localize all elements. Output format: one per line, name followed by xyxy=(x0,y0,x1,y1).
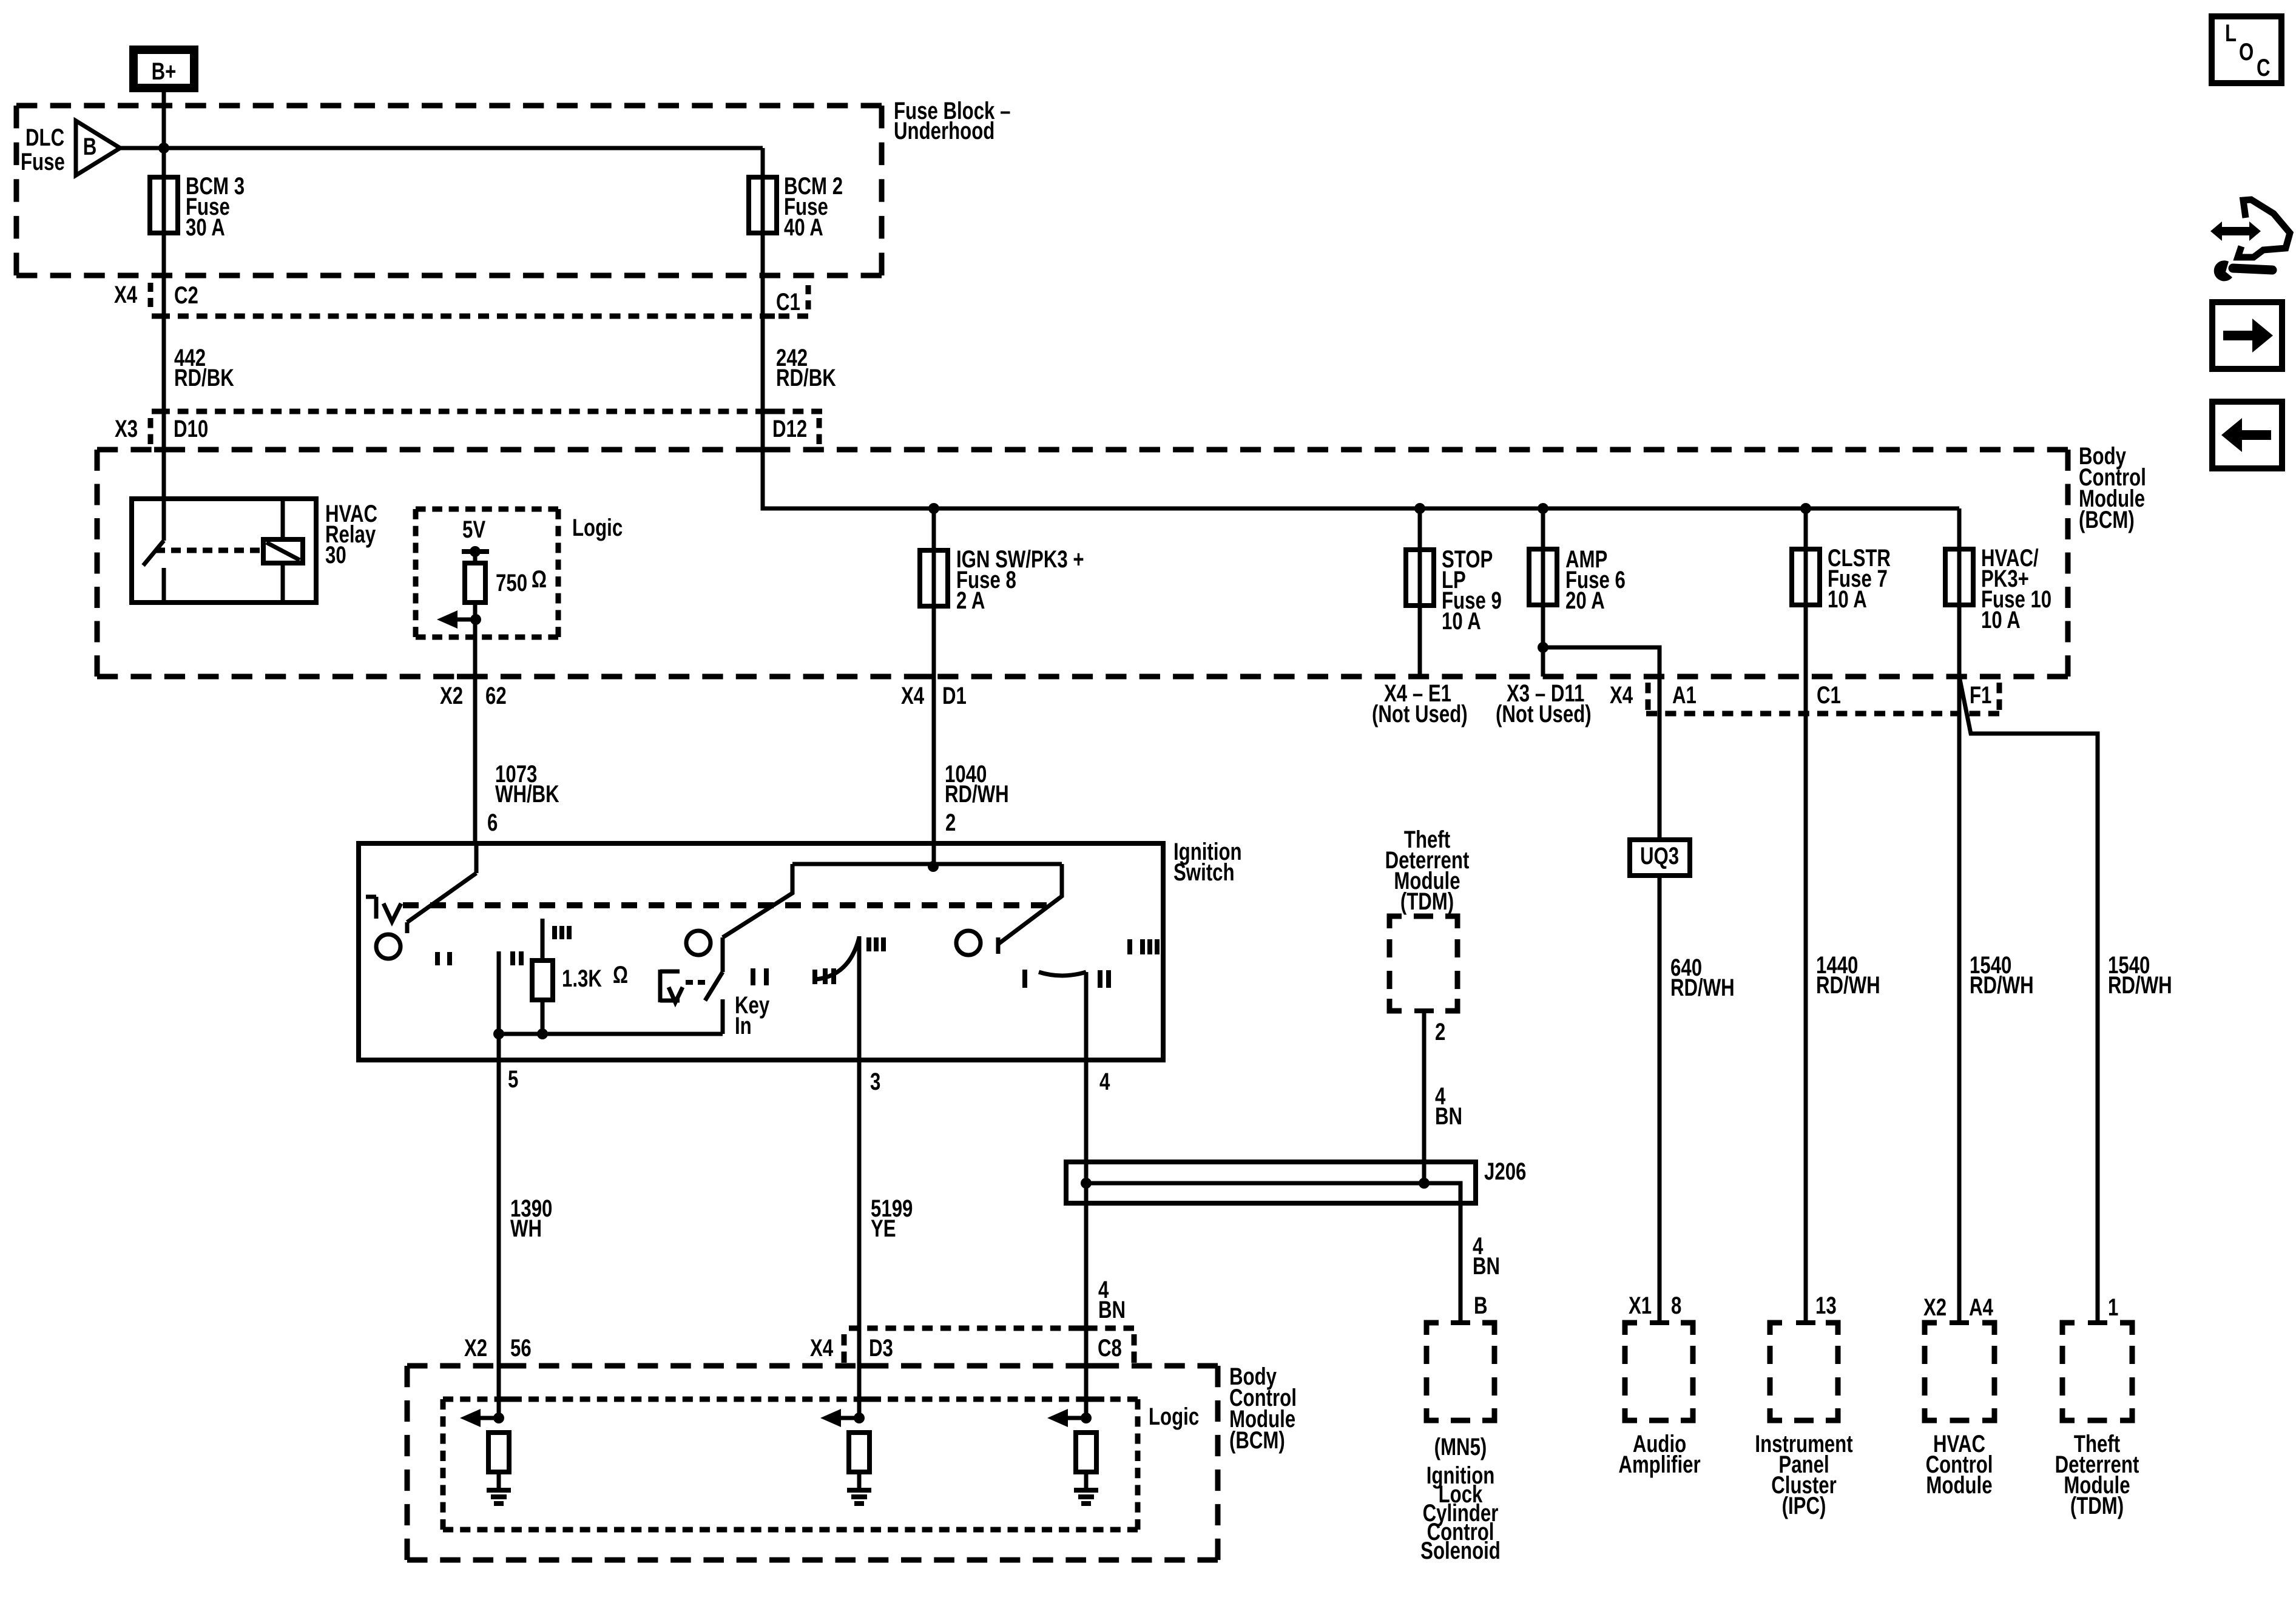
svg-text:RD/WH: RD/WH xyxy=(2108,971,2172,999)
relay contact stub xyxy=(162,568,166,603)
wire fuse9 not used xyxy=(1418,508,1422,677)
svg-text:L: L xyxy=(2225,19,2237,47)
pin tbar audio X1 8 xyxy=(1650,1320,1669,1325)
pin tbar solenoid B xyxy=(1451,1320,1470,1325)
pin tick C1 xyxy=(763,314,775,319)
svg-text:RD/BK: RD/BK xyxy=(174,364,234,391)
contact circle 3 xyxy=(956,931,981,955)
Body Control Module (BCM) box lower xyxy=(407,1363,1218,1369)
svg-text:X4: X4 xyxy=(810,1334,833,1362)
wire fuse6 down xyxy=(1541,508,1545,677)
logic arrow b xyxy=(839,1416,859,1420)
option box UQ3 xyxy=(1630,840,1690,876)
fuse STOP LP Fuse 9 10A xyxy=(1406,550,1434,606)
relay switch blade xyxy=(143,541,164,565)
module Audio Amplifier xyxy=(1625,1323,1693,1420)
junction logic input c xyxy=(1081,1413,1092,1423)
logic arrow a xyxy=(478,1416,499,1420)
wire logic to ignition pin 6 xyxy=(473,603,478,843)
fuse BCM 2 40A xyxy=(749,177,777,233)
icon arrow back xyxy=(2212,402,2282,468)
svg-text:O: O xyxy=(2239,38,2254,66)
junction 1.3K rail xyxy=(537,1028,548,1039)
contact circle 2 xyxy=(686,931,711,955)
wire 1540 to HVAC control module xyxy=(1957,508,1962,1323)
svg-text:C1: C1 xyxy=(1817,681,1841,709)
ground c xyxy=(1074,1490,1098,1504)
junction amp branch xyxy=(1538,642,1548,653)
fuse HVAC/PK3+ Fuse 10 10A xyxy=(1945,549,1973,605)
tick X2 62 xyxy=(457,674,475,680)
junction bus fuse7 xyxy=(1800,503,1811,514)
svg-text:(Not Used): (Not Used) xyxy=(1496,700,1592,727)
svg-text:Amplifier: Amplifier xyxy=(1618,1451,1700,1478)
svg-text:Ω: Ω xyxy=(613,961,628,988)
wire 4 BN ignition xyxy=(1084,1060,1089,1418)
svg-text:Underhood: Underhood xyxy=(894,117,994,144)
switch blade 3 xyxy=(998,864,1062,954)
svg-text:10 A: 10 A xyxy=(1828,586,1867,613)
junction pin 2 xyxy=(928,861,939,872)
switch linkage dashed xyxy=(403,902,1047,908)
resistor 1.3K bottom lead xyxy=(541,1000,545,1034)
svg-text:(BCM): (BCM) xyxy=(2079,506,2135,533)
svg-text:Switch: Switch xyxy=(1173,859,1235,886)
svg-text:30: 30 xyxy=(325,541,346,569)
key-in blade xyxy=(705,972,723,1001)
svg-text:WH/BK: WH/BK xyxy=(495,780,559,808)
logic resistor a xyxy=(488,1433,509,1472)
connector row X4 D3 C8 xyxy=(849,1326,1134,1331)
wire pin3 inside xyxy=(857,936,862,1060)
connector X4 dotted row A1 C1 F1 xyxy=(1646,711,1999,717)
module Theft Deterrent Module TDM (bottom) xyxy=(2062,1323,2132,1420)
connector row X4 C2 / C1 xyxy=(159,314,808,319)
wire 1540 branch to TDM xyxy=(1959,677,2098,1323)
position marks I I group2 xyxy=(753,968,766,985)
svg-text:Ω: Ω xyxy=(532,565,547,593)
icon data link connector with wrench xyxy=(2210,200,2290,281)
svg-text:UQ3: UQ3 xyxy=(1640,842,1679,869)
lock position symbol 1 xyxy=(366,897,376,919)
pin tick D10 xyxy=(152,409,164,414)
svg-text:YE: YE xyxy=(871,1215,896,1242)
svg-text:(IPC): (IPC) xyxy=(1782,1492,1826,1519)
fuse BCM 3 30A xyxy=(150,177,178,233)
svg-text:40 A: 40 A xyxy=(784,214,823,241)
svg-text:D1: D1 xyxy=(942,682,967,709)
svg-text:C8: C8 xyxy=(1098,1334,1122,1362)
svg-text:C1: C1 xyxy=(776,288,800,316)
tick BCM top crossing wire2 xyxy=(753,447,772,453)
logic box lower xyxy=(443,1397,1138,1402)
svg-text:X3: X3 xyxy=(115,415,138,442)
position marks III xyxy=(555,926,569,939)
wire main feed horizontal xyxy=(120,146,763,150)
icon arrow next xyxy=(2212,302,2282,369)
svg-text:750: 750 xyxy=(496,569,527,596)
svg-text:8: 8 xyxy=(1671,1292,1681,1319)
key-in common rail xyxy=(499,1032,723,1036)
svg-text:20 A: 20 A xyxy=(1565,587,1605,614)
svg-text:62: 62 xyxy=(485,682,507,709)
pin2 crossbar xyxy=(792,862,1062,866)
resistor 1.3K ohm xyxy=(532,960,553,1000)
wire fuse8 to ignition pin 2 xyxy=(932,508,936,866)
svg-text:X2: X2 xyxy=(1923,1294,1947,1321)
key-in actuator symbol xyxy=(660,970,680,1002)
pin tick C2 xyxy=(152,314,164,319)
pin3 wiper arc xyxy=(816,937,859,979)
svg-text:56: 56 xyxy=(510,1334,532,1362)
5V stub xyxy=(473,552,478,563)
svg-text:X4: X4 xyxy=(1610,681,1633,709)
resistor 1.3K top lead xyxy=(541,919,545,960)
wire TDM pin2 to J206 xyxy=(1422,1011,1427,1183)
svg-text:2: 2 xyxy=(1435,1018,1445,1045)
svg-text:(Not Used): (Not Used) xyxy=(1372,700,1468,727)
pin6 stub xyxy=(474,843,479,873)
svg-text:10 A: 10 A xyxy=(1981,606,2021,633)
svg-text:30 A: 30 A xyxy=(186,214,225,241)
svg-text:BN: BN xyxy=(1098,1296,1126,1323)
wire 1440 to IPC xyxy=(1804,508,1808,1323)
svg-text:4: 4 xyxy=(1099,1068,1110,1095)
module Instrument Panel Cluster IPC xyxy=(1770,1323,1838,1420)
logic resistor b xyxy=(849,1433,869,1472)
svg-text:10 A: 10 A xyxy=(1442,607,1481,635)
power symbol B+ xyxy=(133,50,194,88)
svg-text:RD/WH: RD/WH xyxy=(945,780,1009,808)
splice pack J206 xyxy=(1066,1162,1476,1203)
wire 1390 WH xyxy=(497,1060,501,1418)
svg-text:D3: D3 xyxy=(869,1334,893,1362)
svg-text:B+: B+ xyxy=(152,58,177,85)
pin tbar TDM 1 xyxy=(2088,1320,2107,1325)
svg-text:2: 2 xyxy=(945,809,956,836)
pin tbar TDM 2 xyxy=(1414,1008,1434,1013)
fuse AMP Fuse 6 20A xyxy=(1529,549,1557,605)
svg-text:X2: X2 xyxy=(464,1334,487,1362)
svg-text:B: B xyxy=(1474,1292,1488,1319)
logic arrow xyxy=(455,618,476,622)
svg-text:A4: A4 xyxy=(1969,1294,1993,1321)
svg-text:(TDM): (TDM) xyxy=(2070,1492,2124,1519)
svg-text:X4: X4 xyxy=(901,682,924,709)
svg-text:1.3K: 1.3K xyxy=(562,965,602,992)
svg-text:3: 3 xyxy=(870,1068,880,1095)
svg-text:RD/WH: RD/WH xyxy=(1970,971,2034,999)
svg-text:Module: Module xyxy=(1926,1471,1992,1499)
Ignition Switch box xyxy=(359,843,1163,1060)
pin tbar IPC 13 xyxy=(1796,1320,1815,1325)
switch blade 1 xyxy=(407,873,476,933)
connector row X3 D10 / D12 xyxy=(159,409,822,414)
svg-text:13: 13 xyxy=(1815,1292,1837,1319)
svg-text:C: C xyxy=(2257,54,2271,81)
relay coil leads xyxy=(281,499,285,603)
Body Control Module (BCM) box upper xyxy=(97,447,2068,453)
logic resistor c xyxy=(1076,1433,1096,1472)
svg-text:(MN5): (MN5) xyxy=(1434,1433,1487,1460)
switch blade 2 xyxy=(723,864,792,972)
junction logic input a xyxy=(493,1413,504,1423)
svg-text:F1: F1 xyxy=(1970,681,1991,709)
fuse CLSTR Fuse 7 10A xyxy=(1792,549,1820,605)
icon LOC box xyxy=(2212,16,2281,83)
resistor 750 ohm xyxy=(465,563,485,603)
module HVAC Control Module xyxy=(1925,1323,1994,1420)
relay coil xyxy=(263,539,303,563)
ground a xyxy=(487,1490,511,1504)
wire 5199 YE xyxy=(857,1060,862,1418)
junction J206 a xyxy=(1081,1178,1092,1189)
svg-text:BN: BN xyxy=(1473,1252,1500,1280)
svg-text:5: 5 xyxy=(508,1065,518,1093)
svg-text:J206: J206 xyxy=(1484,1158,1526,1185)
svg-text:DLC: DLC xyxy=(25,124,64,151)
pin3 contact arc xyxy=(812,970,817,984)
logic arrow c xyxy=(1065,1416,1086,1420)
HVAC Relay 30 xyxy=(132,499,316,603)
wire bus xyxy=(763,148,1959,508)
junction logic input b xyxy=(854,1413,865,1423)
svg-text:2 A: 2 A xyxy=(956,587,985,614)
tick BCM top crossing wire1 xyxy=(154,447,174,453)
svg-text:X2: X2 xyxy=(440,682,463,709)
wire J206 internal to solenoid xyxy=(1086,1183,1460,1323)
key-in stub xyxy=(721,999,725,1034)
tick X4 D1 xyxy=(915,674,933,680)
pin tick D12 xyxy=(763,409,775,414)
svg-text:(BCM): (BCM) xyxy=(1229,1426,1285,1454)
svg-text:BN: BN xyxy=(1435,1102,1462,1130)
module Theft Deterrent Module TDM (top) xyxy=(1389,916,1457,1011)
svg-text:Logic: Logic xyxy=(1149,1403,1199,1430)
svg-text:D10: D10 xyxy=(174,415,208,442)
logic block 5V 750 ohm xyxy=(416,507,558,512)
svg-text:RD/BK: RD/BK xyxy=(776,364,836,391)
wire B+ vertical to HVAC relay xyxy=(162,92,166,499)
svg-text:C2: C2 xyxy=(174,282,198,309)
svg-text:D12: D12 xyxy=(772,415,807,442)
svg-text:Solenoid: Solenoid xyxy=(1420,1537,1501,1564)
junction bus fuse8 xyxy=(928,503,939,514)
position marks II xyxy=(513,951,521,965)
pin4 contact arc xyxy=(1022,970,1027,988)
contact circle 1 xyxy=(376,934,400,959)
svg-text:A1: A1 xyxy=(1672,681,1697,709)
svg-text:6: 6 xyxy=(487,809,498,836)
wire pin5 inside xyxy=(497,951,501,1060)
svg-text:5V: 5V xyxy=(462,516,485,543)
Fuse Block - Underhood box xyxy=(16,103,882,109)
junction bus fuse6 xyxy=(1538,503,1548,514)
svg-text:1: 1 xyxy=(2108,1294,2118,1321)
junction J206 b xyxy=(1419,1178,1430,1189)
svg-text:X1: X1 xyxy=(1629,1292,1652,1319)
svg-text:RD/WH: RD/WH xyxy=(1816,971,1880,999)
ground b xyxy=(847,1490,871,1504)
pin4 wiper arc xyxy=(1039,972,1086,976)
position marks I I xyxy=(437,952,450,965)
module MN5 ignition lock cylinder control solenoid xyxy=(1427,1323,1494,1420)
wire pin4 inside xyxy=(1084,972,1089,1060)
svg-text:X4: X4 xyxy=(114,281,137,308)
svg-text:B: B xyxy=(83,133,97,160)
svg-text:RD/WH: RD/WH xyxy=(1670,974,1735,1001)
svg-text:In: In xyxy=(735,1012,752,1039)
tick C8 xyxy=(1077,1326,1095,1331)
svg-text:Logic: Logic xyxy=(572,514,623,541)
junction B+ feed xyxy=(158,143,169,154)
junction logic output xyxy=(470,614,481,625)
svg-text:Fuse: Fuse xyxy=(21,148,65,175)
svg-text:WH: WH xyxy=(510,1215,542,1242)
junction pin5 rail xyxy=(493,1028,504,1039)
wire 640 branch to audio amplifier xyxy=(1543,647,1660,1323)
DLC Fuse triangle B xyxy=(76,121,120,175)
5V tap xyxy=(462,549,489,554)
pin tbar HVAC X2 A4 xyxy=(1950,1320,1969,1325)
junction bus fuse9 xyxy=(1414,503,1425,514)
relay switch feed xyxy=(162,499,166,541)
svg-text:(TDM): (TDM) xyxy=(1400,888,1454,915)
fuse IGN SW/PK3+ Fuse 8 2A xyxy=(920,550,948,606)
